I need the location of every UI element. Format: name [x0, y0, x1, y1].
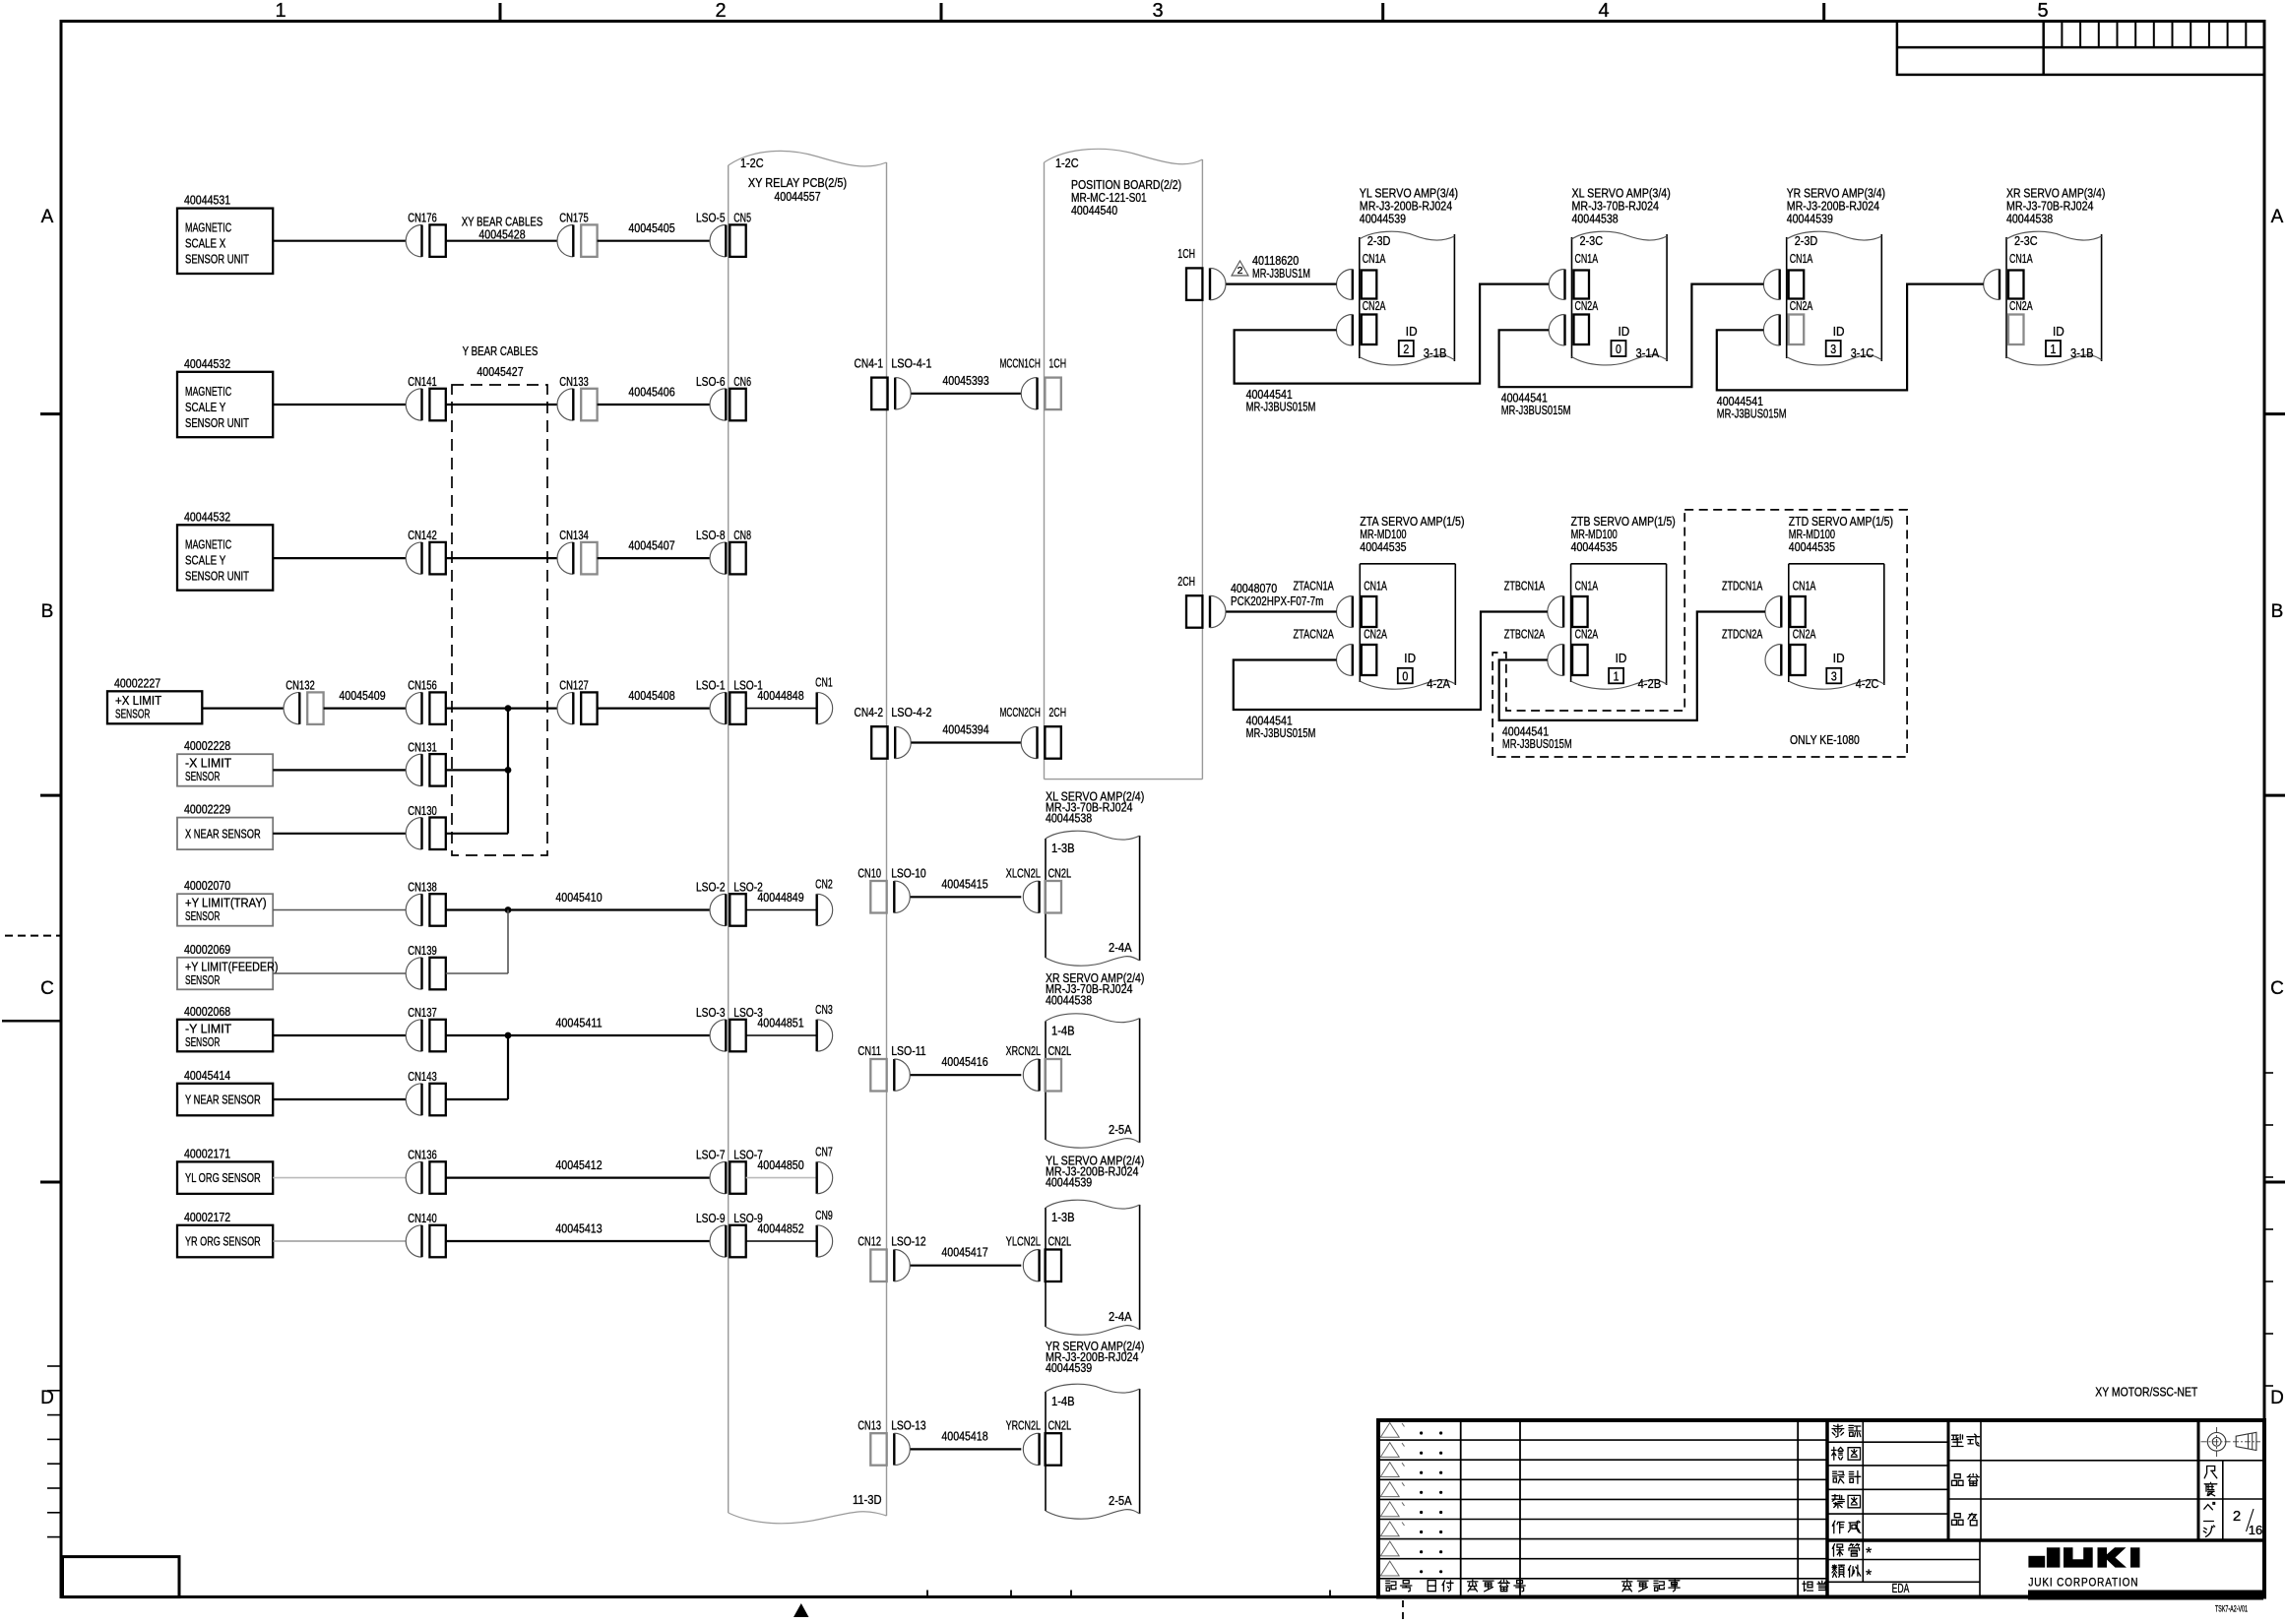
svg-text:MAGNETIC: MAGNETIC — [185, 384, 231, 399]
connector CN2A YL SERVO AMP(3/4) — [1362, 315, 1377, 345]
ruler ticks left — [47, 1365, 61, 1367]
zone ticks left — [40, 412, 61, 415]
warning triangle 2 — [1232, 261, 1248, 276]
label SAKUSEI — [1832, 1521, 1844, 1533]
svg-text:MR-J3BUS015M: MR-J3BUS015M — [1246, 725, 1316, 740]
svg-text:MR-J3BUS015M: MR-J3BUS015M — [1501, 403, 1571, 417]
connector CN133 — [557, 389, 598, 421]
svg-text:11-3D: 11-3D — [853, 1492, 882, 1507]
wire junction X group — [507, 709, 509, 834]
wire 40044849 — [746, 909, 817, 911]
board XR SERVO AMP(2/4) — [1046, 970, 1144, 1148]
svg-text:SCALE X: SCALE X — [185, 236, 226, 251]
sensor box YR ORG SENSOR — [177, 1210, 273, 1258]
stub box bottom-left — [63, 1557, 180, 1597]
svg-text:CN175: CN175 — [559, 211, 589, 225]
JUKI logo — [2028, 1547, 2139, 1567]
svg-text:40044535: 40044535 — [1571, 539, 1618, 554]
svg-text:40045413: 40045413 — [555, 1221, 602, 1236]
svg-text:40002229: 40002229 — [184, 802, 230, 817]
svg-text:A: A — [2271, 207, 2284, 227]
svg-text:40044852: 40044852 — [757, 1221, 803, 1236]
svg-text:2: 2 — [2233, 1508, 2241, 1525]
svg-text:40044850: 40044850 — [757, 1157, 803, 1172]
svg-text:40045407: 40045407 — [628, 538, 674, 553]
svg-text:SENSOR UNIT: SENSOR UNIT — [185, 252, 249, 267]
svg-text:CN134: CN134 — [559, 528, 589, 542]
connector CN141 — [406, 389, 446, 421]
wire — [446, 769, 508, 771]
svg-text:CN2A: CN2A — [1575, 627, 1599, 642]
svg-text:40044540: 40044540 — [1071, 203, 1117, 218]
connector CN138 — [406, 894, 446, 926]
wire 40045417 — [911, 1265, 1022, 1267]
svg-text:XY RELAY PCB(2/5): XY RELAY PCB(2/5) — [748, 175, 847, 190]
connector CN142 — [406, 542, 446, 575]
wire chain ZTACN2A to ZTBCN1A — [1234, 612, 1548, 740]
connector CN4-1 / LSO-4-1 — [871, 378, 911, 410]
connector CN132 — [284, 692, 324, 724]
connector CN7 — [817, 1161, 833, 1193]
connector CN6 — [710, 389, 746, 421]
connector CN130 — [406, 818, 446, 850]
connector CN131 — [406, 754, 446, 786]
svg-text:Y NEAR SENSOR: Y NEAR SENSOR — [185, 1093, 261, 1107]
svg-text:3: 3 — [1831, 669, 1837, 684]
svg-text:CN140: CN140 — [408, 1211, 437, 1225]
connector CN5 — [710, 224, 746, 257]
connector ZTBCN2A — [1572, 645, 1588, 675]
connector CN2 — [817, 894, 833, 925]
svg-text:C: C — [40, 978, 54, 999]
dashed group ONLY KE-1080 — [1492, 510, 1907, 757]
revision triangle row 8 — [1380, 1561, 1399, 1576]
svg-text:3-1B: 3-1B — [2070, 345, 2094, 360]
svg-text:LSO-7: LSO-7 — [696, 1148, 726, 1162]
svg-text:LSO-9: LSO-9 — [696, 1211, 726, 1225]
svg-text:ZTBCN1A: ZTBCN1A — [1504, 579, 1546, 593]
svg-text:40044539: 40044539 — [1046, 1175, 1092, 1190]
svg-text:CN2L: CN2L — [1048, 1417, 1072, 1432]
connector CN143 — [406, 1084, 446, 1116]
wire chain YR-CN2A to XR-CN1A — [1717, 284, 1984, 421]
svg-text:40044539: 40044539 — [1046, 1360, 1092, 1375]
wire 40045411 — [446, 1034, 711, 1036]
svg-text:XY MOTOR/SSC-NET: XY MOTOR/SSC-NET — [2095, 1385, 2197, 1400]
svg-text:CN133: CN133 — [559, 374, 589, 389]
svg-text:MR-J3BUS015M: MR-J3BUS015M — [1246, 400, 1316, 414]
wire — [273, 1177, 406, 1179]
board YR SERVO AMP(3/4) — [1787, 186, 1885, 365]
zone ticks top — [499, 3, 502, 22]
wire 40045393 — [912, 393, 1022, 395]
wire 40045409 — [324, 707, 407, 709]
ruler ticks right — [2264, 1072, 2273, 1074]
wire 40044850 — [746, 1177, 817, 1179]
board XL SERVO AMP(3/4) — [1572, 186, 1671, 365]
svg-text:CN2A: CN2A — [2009, 298, 2033, 313]
svg-text:40002069: 40002069 — [184, 942, 230, 957]
wire 40045407 — [598, 557, 711, 559]
label KATASHIKI (model) — [1952, 1434, 1964, 1446]
svg-text:LSO-12: LSO-12 — [891, 1234, 925, 1249]
svg-text:40044535: 40044535 — [1789, 539, 1835, 554]
svg-text:1: 1 — [2051, 342, 2057, 356]
svg-text:3: 3 — [1152, 0, 1163, 22]
svg-text:40045415: 40045415 — [941, 876, 987, 891]
svg-text:ONLY KE-1080: ONLY KE-1080 — [1790, 732, 1860, 747]
svg-text:2-3C: 2-3C — [2014, 233, 2038, 248]
svg-text:CN8: CN8 — [733, 528, 751, 542]
svg-text:CN1A: CN1A — [1575, 251, 1599, 266]
sensor box MAGNETIC SCALE Y SENSOR UNIT — [177, 356, 273, 437]
svg-text:LSO-11: LSO-11 — [891, 1043, 925, 1058]
svg-text:TSK7-A2-V01: TSK7-A2-V01 — [2215, 1604, 2248, 1615]
connector LSO-1 — [710, 692, 746, 724]
svg-text:CN139: CN139 — [408, 943, 437, 958]
connector CN2A YR SERVO AMP(3/4) — [1789, 315, 1805, 345]
svg-text:LSO-6: LSO-6 — [696, 374, 726, 389]
svg-text:40044538: 40044538 — [1046, 811, 1092, 826]
svg-text:40045405: 40045405 — [628, 220, 674, 235]
svg-text:3-1C: 3-1C — [1851, 345, 1874, 360]
connector CN134 — [557, 542, 598, 575]
svg-text:MR-J3BUS015M: MR-J3BUS015M — [1502, 736, 1572, 751]
svg-text:LSO-4-1: LSO-4-1 — [891, 355, 931, 370]
wire 40045418 — [911, 1448, 1022, 1450]
svg-text:CN1A: CN1A — [2009, 251, 2033, 266]
connector LSO-3 — [710, 1020, 746, 1052]
svg-text:40044538: 40044538 — [1572, 211, 1619, 225]
third angle projection symbol — [2201, 1427, 2261, 1457]
connector CN2A XL SERVO AMP(3/4) — [1574, 315, 1590, 345]
revision triangle row 7 — [1380, 1541, 1399, 1556]
connector CN1A YL SERVO AMP(3/4) — [1362, 271, 1377, 299]
svg-text:ID: ID — [1616, 651, 1627, 665]
svg-text:CN127: CN127 — [559, 678, 589, 693]
svg-text:40044532: 40044532 — [184, 509, 230, 524]
wire — [446, 833, 508, 835]
svg-text:2-5A: 2-5A — [1109, 1493, 1132, 1508]
label SEKKEI — [1833, 1471, 1845, 1483]
svg-text:MAGNETIC: MAGNETIC — [185, 536, 231, 551]
svg-text:MAGNETIC: MAGNETIC — [185, 220, 231, 235]
wire 40045415 — [911, 896, 1022, 898]
connector CN8 — [710, 542, 746, 575]
svg-text:CN1A: CN1A — [1793, 579, 1816, 593]
wire — [446, 972, 508, 974]
svg-text:LSO-13: LSO-13 — [891, 1417, 925, 1432]
svg-text:MCCN2CH: MCCN2CH — [1000, 705, 1041, 719]
wire junction -Y group — [507, 1035, 509, 1099]
connector LSO-9 — [710, 1225, 746, 1258]
wire 40044848 — [746, 708, 817, 710]
connector ZTDCN2A — [1790, 645, 1806, 675]
svg-text:40002227: 40002227 — [114, 675, 160, 690]
connector CN127 — [557, 692, 598, 724]
label HINMEI (part name) — [1952, 1514, 1964, 1526]
svg-text:2-4A: 2-4A — [1109, 940, 1132, 955]
connector CN9 — [817, 1225, 833, 1257]
svg-text:1CH: 1CH — [1177, 246, 1195, 261]
svg-text:CN176: CN176 — [408, 211, 437, 225]
svg-text:CN1A: CN1A — [1363, 251, 1386, 266]
label HIDUKE (date) — [1428, 1581, 1435, 1592]
board YL SERVO AMP(3/4) — [1360, 186, 1458, 365]
svg-text:40045417: 40045417 — [941, 1245, 987, 1260]
svg-text:2-4A: 2-4A — [1109, 1309, 1132, 1324]
connector CN12 / LSO-12 — [870, 1250, 910, 1282]
revision strip — [1897, 22, 2264, 75]
label SEIZU — [1832, 1495, 1844, 1509]
connector CN11 / LSO-11 — [870, 1059, 910, 1092]
svg-text:2-3C: 2-3C — [1580, 233, 1604, 248]
svg-text:40045394: 40045394 — [942, 722, 988, 737]
svg-text:ID: ID — [1404, 651, 1416, 665]
svg-text:LSO-4-2: LSO-4-2 — [891, 705, 931, 719]
svg-text:40002070: 40002070 — [184, 878, 230, 893]
connector CN175 — [557, 224, 598, 257]
svg-text:CN11: CN11 — [857, 1043, 881, 1058]
board ZTA SERVO AMP(1/5) — [1360, 514, 1464, 689]
wire — [273, 1034, 406, 1036]
svg-text:ID: ID — [1833, 324, 1845, 339]
svg-text:SENSOR: SENSOR — [115, 706, 150, 720]
svg-text:CN130: CN130 — [408, 803, 437, 818]
title block — [1378, 1420, 2264, 1615]
svg-text:CN138: CN138 — [408, 880, 437, 895]
svg-text:CN132: CN132 — [286, 678, 315, 693]
wire 40045408 — [446, 707, 557, 709]
dashed mark below title block — [1402, 1600, 1404, 1624]
svg-text:40044851: 40044851 — [757, 1016, 803, 1031]
wire 40044851 — [746, 1034, 817, 1036]
svg-text:CN2L: CN2L — [1048, 1043, 1072, 1058]
wire — [202, 707, 284, 709]
wire chain XL-CN2A to YR-CN1A — [1499, 284, 1764, 418]
svg-text:CN143: CN143 — [408, 1069, 437, 1084]
svg-text:1-3B: 1-3B — [1051, 1210, 1075, 1224]
svg-text:16: 16 — [2249, 1523, 2262, 1537]
wire 40045412 — [446, 1176, 711, 1178]
svg-text:2-5A: 2-5A — [1109, 1122, 1132, 1137]
svg-text:ZTACN1A: ZTACN1A — [1294, 579, 1335, 593]
connector CN1A XL SERVO AMP(3/4) — [1574, 271, 1590, 299]
svg-text:1CH: 1CH — [1048, 355, 1066, 370]
svg-text:2-3D: 2-3D — [1367, 233, 1391, 248]
svg-text:2CH: 2CH — [1177, 574, 1195, 589]
svg-text:3: 3 — [1830, 342, 1836, 356]
svg-text:CN142: CN142 — [408, 528, 437, 542]
svg-text:CN2A: CN2A — [1364, 627, 1387, 642]
sensor box +Y LIMIT(FEEDER) SENSOR — [177, 942, 278, 990]
svg-text:40044539: 40044539 — [1360, 211, 1406, 225]
svg-text:1-2C: 1-2C — [740, 156, 764, 170]
connector CN1A YR SERVO AMP(3/4) — [1789, 271, 1805, 299]
svg-text:LSO-2: LSO-2 — [696, 880, 726, 895]
sensor box YL ORG SENSOR — [177, 1146, 273, 1194]
connector ZTACN2A — [1362, 645, 1377, 675]
connector CN10 / LSO-10 — [870, 881, 910, 913]
svg-text:Y BEAR CABLES: Y BEAR CABLES — [463, 344, 539, 358]
label KENZU — [1831, 1447, 1843, 1460]
connector CN1A XR SERVO AMP(3/4) — [2008, 271, 2024, 299]
wire 40044852 — [746, 1240, 817, 1242]
board XY RELAY PCB(2/5) — [729, 151, 887, 1523]
sensor box MAGNETIC SCALE Y SENSOR UNIT 2 — [177, 509, 273, 590]
board XL SERVO AMP(2/4) — [1046, 788, 1144, 966]
sensor box Y NEAR SENSOR — [177, 1068, 273, 1116]
connector 1CH (position board) — [1186, 268, 1226, 300]
svg-text:40045414: 40045414 — [184, 1068, 230, 1083]
svg-text:4-2A: 4-2A — [1427, 676, 1450, 691]
wire 40045413 — [446, 1240, 711, 1242]
sensor box -X LIMIT SENSOR — [177, 738, 273, 786]
svg-text:40045393: 40045393 — [942, 373, 988, 388]
board YL SERVO AMP(2/4) — [1046, 1154, 1144, 1336]
centre dashed mark left — [5, 935, 61, 937]
svg-text:B: B — [41, 601, 54, 622]
svg-text:MR-J3BUS015M: MR-J3BUS015M — [1717, 406, 1787, 420]
wire — [273, 557, 406, 559]
svg-text:1-2C: 1-2C — [1055, 156, 1079, 170]
svg-text:CN4-1: CN4-1 — [855, 355, 884, 370]
connector ZTACN1A — [1362, 596, 1377, 627]
svg-text:MR-J3BUS1M: MR-J3BUS1M — [1252, 266, 1310, 281]
dashed group Y BEAR CABLES — [452, 385, 547, 855]
svg-text:SENSOR: SENSOR — [185, 972, 220, 987]
svg-text:CN141: CN141 — [408, 374, 437, 389]
svg-text:CN10: CN10 — [857, 865, 881, 880]
wire — [598, 707, 711, 709]
svg-text:YR ORG SENSOR: YR ORG SENSOR — [185, 1234, 261, 1249]
zone ticks right — [2264, 412, 2285, 415]
svg-text:2: 2 — [715, 0, 726, 22]
svg-text:40045411: 40045411 — [555, 1016, 602, 1031]
svg-text:LSO-3: LSO-3 — [696, 1005, 726, 1020]
connector CN4-2 / LSO-4-2 — [871, 726, 911, 759]
wire — [446, 557, 557, 559]
svg-text:2: 2 — [1238, 265, 1243, 277]
label PAGE (vertical) — [2204, 1503, 2215, 1510]
svg-text:LSO-10: LSO-10 — [891, 865, 925, 880]
wire — [273, 769, 406, 771]
svg-text:A: A — [41, 207, 54, 227]
svg-text:CN137: CN137 — [408, 1005, 437, 1020]
wire XY BEAR CABLES 40045428 — [446, 240, 557, 242]
svg-text:*: * — [1866, 1568, 1872, 1585]
svg-text:ZTBCN2A: ZTBCN2A — [1504, 627, 1546, 642]
connector CN176 — [406, 224, 446, 257]
svg-text:3-1A: 3-1A — [1636, 345, 1660, 360]
svg-text:40045408: 40045408 — [628, 688, 674, 703]
label HOKAN — [1832, 1544, 1843, 1556]
fold ticks bottom — [926, 1591, 928, 1597]
svg-text:SENSOR: SENSOR — [185, 1034, 220, 1049]
connector LSO-2 — [710, 894, 746, 926]
svg-text:CN2A: CN2A — [1790, 298, 1813, 313]
svg-text:40045416: 40045416 — [941, 1054, 987, 1069]
svg-text:CN5: CN5 — [733, 211, 751, 225]
connector CN156 — [406, 692, 446, 724]
svg-text:1: 1 — [275, 0, 286, 22]
board ZTD SERVO AMP(1/5) — [1789, 514, 1893, 689]
svg-text:40044557: 40044557 — [774, 189, 820, 204]
wire Y BEAR CABLES — [446, 404, 557, 406]
connector YRCN2L / CN2L — [1023, 1433, 1061, 1466]
connector CN140 — [406, 1225, 446, 1258]
centre triangle bottom — [794, 1603, 809, 1617]
svg-text:SCALE Y: SCALE Y — [185, 400, 226, 414]
svg-text:EDA: EDA — [1892, 1581, 1910, 1595]
revision triangle row 5 — [1380, 1502, 1399, 1517]
svg-text:ID: ID — [1619, 324, 1630, 339]
wire — [273, 972, 406, 974]
svg-text:4-2C: 4-2C — [1856, 676, 1879, 691]
board XR SERVO AMP(3/4) — [2006, 186, 2105, 365]
connector ZTDCN1A — [1790, 596, 1806, 627]
svg-text:40044849: 40044849 — [757, 890, 803, 905]
revision triangle row 1 — [1380, 1423, 1399, 1438]
connector XRCN2L / CN2L — [1023, 1059, 1061, 1092]
svg-text:CN2A: CN2A — [1793, 627, 1816, 642]
revision triangle row 4 — [1380, 1482, 1399, 1497]
svg-text:ID: ID — [2053, 324, 2064, 339]
sensor box -Y LIMIT SENSOR — [177, 1004, 273, 1052]
svg-text:ID: ID — [1406, 324, 1418, 339]
svg-text:CN1A: CN1A — [1575, 579, 1599, 593]
svg-text:CN9: CN9 — [815, 1208, 833, 1222]
sensor box X NEAR SENSOR — [177, 802, 273, 850]
svg-text:CN3: CN3 — [815, 1002, 833, 1017]
svg-text:ZTACN2A: ZTACN2A — [1294, 627, 1335, 642]
svg-text:1-4B: 1-4B — [1051, 1024, 1075, 1038]
connector YLCN2L / CN2L — [1023, 1250, 1061, 1282]
svg-text:0: 0 — [1616, 342, 1621, 356]
connector CN2A XR SERVO AMP(3/4) — [2008, 315, 2024, 345]
wire MR-J3BUS1M — [1226, 283, 1336, 285]
connector CN137 — [406, 1020, 446, 1052]
svg-text:CN2L: CN2L — [1048, 1234, 1072, 1249]
svg-text:CN131: CN131 — [408, 739, 437, 754]
revision triangle row 6 — [1380, 1522, 1399, 1536]
svg-text:40045412: 40045412 — [555, 1157, 602, 1172]
svg-text:40045406: 40045406 — [628, 385, 674, 400]
connector CN139 — [406, 958, 446, 990]
connector CN136 — [406, 1161, 446, 1194]
wire — [446, 1098, 508, 1100]
label SHAKUDO (scale) — [2204, 1467, 2217, 1478]
board POSITION BOARD(2/2) — [1045, 149, 1203, 779]
svg-text:40044535: 40044535 — [1360, 539, 1406, 554]
connector 2CH (position board) — [1186, 595, 1226, 628]
svg-text:40044538: 40044538 — [1046, 992, 1092, 1007]
svg-text:XRCN2L: XRCN2L — [1006, 1043, 1041, 1058]
label RUIJI — [1832, 1565, 1844, 1577]
svg-text:CN2: CN2 — [815, 877, 833, 892]
wire — [273, 240, 406, 242]
svg-text:*: * — [1866, 1545, 1872, 1562]
svg-text:YL ORG SENSOR: YL ORG SENSOR — [185, 1170, 261, 1185]
svg-text:2CH: 2CH — [1048, 705, 1066, 719]
svg-text:ZTDCN1A: ZTDCN1A — [1722, 579, 1763, 593]
wire 40045410 — [446, 908, 711, 910]
board ZTB SERVO AMP(1/5) — [1571, 514, 1676, 689]
svg-text:4-2B: 4-2B — [1638, 676, 1662, 691]
connector CN13 / LSO-13 — [870, 1433, 910, 1466]
svg-text:40044538: 40044538 — [2006, 211, 2053, 225]
wire 40045394 — [912, 741, 1022, 743]
